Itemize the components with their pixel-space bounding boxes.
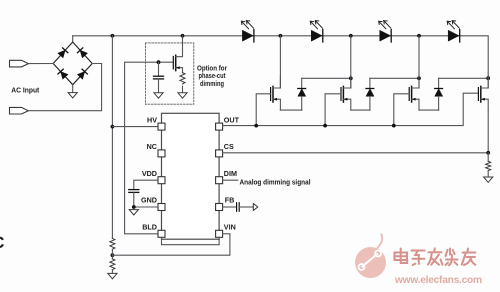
pin GND <box>158 204 165 211</box>
pin BLD <box>158 230 165 237</box>
bridge rectifier BR1 <box>53 42 92 85</box>
capacitor C2 VDD <box>129 190 139 207</box>
pin NC <box>158 150 165 157</box>
ground bridge <box>68 85 77 98</box>
wire FB <box>223 206 237 208</box>
capacitor C3 FB <box>237 203 240 211</box>
diode D_tr <box>77 48 87 58</box>
node gate3-out <box>392 124 396 128</box>
node rail Q5 drain <box>181 34 185 38</box>
label option phase-cut dimming <box>197 65 227 88</box>
diode D5 <box>298 78 306 110</box>
wire source2 to D6 <box>351 109 370 111</box>
wire DIM <box>223 179 238 181</box>
char you <box>462 249 476 266</box>
node tap2 <box>349 34 353 38</box>
wire D5 to tap2 <box>302 77 351 79</box>
diode D_tl <box>58 48 68 58</box>
pin VIN <box>216 230 223 237</box>
wire HV to IC <box>112 126 158 128</box>
node tap1 <box>279 34 283 38</box>
node rail-main junction <box>111 34 115 38</box>
pin DIM <box>216 177 223 184</box>
wire VIN to divider <box>112 234 229 255</box>
wire tap4 drop <box>487 78 489 88</box>
wire BLD riser <box>125 62 174 234</box>
svg-text:VIN: VIN <box>224 223 236 232</box>
svg-text:DIM: DIM <box>224 169 237 178</box>
svg-text:www.elecfans.com: www.elecfans.com <box>394 275 482 286</box>
diode D6 <box>366 78 374 110</box>
char dian <box>395 249 408 264</box>
ground R2 <box>108 270 117 279</box>
wire D7 to tap4 <box>439 77 489 79</box>
wire main HV line <box>111 36 113 239</box>
svg-text:AC Input: AC Input <box>11 86 39 95</box>
terminal FB arrow <box>253 204 257 211</box>
svg-text:Analog dimming signal: Analog dimming signal <box>240 177 311 186</box>
wire CS <box>223 152 489 154</box>
char shao <box>446 249 458 266</box>
diode D_br <box>77 69 87 79</box>
op-amp U1 controller IC body <box>162 113 220 239</box>
resistor R2 <box>110 259 115 270</box>
char fa <box>428 248 442 264</box>
LED D1 <box>241 21 254 42</box>
dashed box phase-cut option <box>145 43 193 104</box>
svg-text:HV: HV <box>147 115 157 124</box>
svg-text:VDD: VDD <box>142 169 157 178</box>
node tap4 <box>486 76 490 80</box>
node tap3 <box>417 34 421 38</box>
node gate2-out <box>323 124 327 128</box>
node CS junction <box>486 151 490 155</box>
ground R4 <box>484 171 493 183</box>
wire AC neutral to bridge <box>28 64 101 111</box>
pin VDD <box>158 177 165 184</box>
terminal AC neutral <box>10 107 29 114</box>
svg-text:C: C <box>0 234 5 252</box>
wire top rail <box>73 36 489 78</box>
wire bridge output stub <box>72 36 74 42</box>
wire OUT rail <box>223 93 479 125</box>
node tap2-D5 <box>349 76 353 80</box>
svg-text:BLD: BLD <box>142 223 157 232</box>
wire D6 to tap3 <box>370 77 419 79</box>
transistor Q4 <box>478 76 488 110</box>
terminal AC line <box>10 60 29 67</box>
wire tap2 drop <box>350 36 352 88</box>
pin HV <box>158 123 165 130</box>
wire divider <box>111 249 113 259</box>
LED D3 <box>379 21 392 42</box>
transistor Q2 <box>341 76 351 110</box>
LED D2 <box>310 21 323 42</box>
wire gate Q2 <box>325 94 341 126</box>
node HV tap <box>111 125 115 129</box>
svg-text:GND: GND <box>141 196 157 205</box>
transistor Q5 phase-cut <box>173 36 182 73</box>
logo elecfans circle <box>355 234 386 279</box>
transistor Q1 <box>271 76 281 110</box>
svg-text:dimming: dimming <box>200 81 224 88</box>
wire source4 to CS <box>487 110 489 153</box>
wire gate Q1 <box>256 94 270 126</box>
transistor Q3 <box>409 76 419 110</box>
ground C1 <box>154 93 163 98</box>
wire source1 to D5 <box>280 109 301 111</box>
wire FB out <box>239 206 253 208</box>
wire tap3 drop <box>418 36 420 88</box>
node GND junction <box>132 205 136 209</box>
wire BLD-VIN bottom link <box>162 237 220 244</box>
diode D7 <box>435 78 443 110</box>
node tap3-D6 <box>417 76 421 80</box>
resistor R1 <box>110 238 115 249</box>
pin FB <box>216 204 223 211</box>
svg-text:FB: FB <box>225 196 235 205</box>
char zi <box>412 251 425 266</box>
diode D_bl <box>58 69 68 79</box>
node R divider <box>111 253 115 257</box>
wire tap1 drop <box>279 36 281 88</box>
label watermark chinese <box>395 248 476 265</box>
wire GND <box>134 206 158 208</box>
wire source3 to D7 <box>419 109 439 111</box>
wire AC line to bridge <box>28 63 53 65</box>
resistor R3 phase-cut <box>180 73 185 84</box>
wire gate Q3 <box>394 94 409 126</box>
ground R3 <box>178 86 187 98</box>
node gate-cap junction <box>157 60 161 64</box>
resistor R4 sense <box>486 161 491 170</box>
svg-text:phase-cut: phase-cut <box>199 73 227 80</box>
node gate1-out <box>254 124 258 128</box>
LED D4 <box>447 21 460 42</box>
svg-text:CS: CS <box>224 142 234 151</box>
pin CS <box>216 150 223 157</box>
wire CS to R4 <box>487 153 489 162</box>
capacitor C1 <box>154 62 164 93</box>
ground GND pin <box>129 210 138 215</box>
svg-text:OUT: OUT <box>224 115 240 124</box>
svg-text:Option for: Option for <box>197 65 227 72</box>
svg-text:NC: NC <box>147 142 157 151</box>
pin OUT <box>216 123 223 130</box>
wire VDD <box>134 180 158 189</box>
